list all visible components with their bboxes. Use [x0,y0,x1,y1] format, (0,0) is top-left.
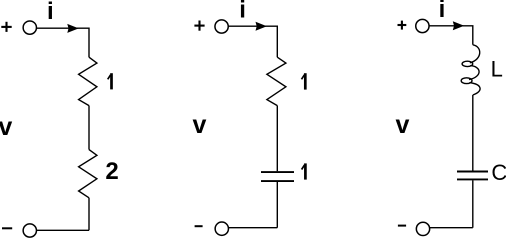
minus terminal label (left source) [2,227,12,229]
capacitor 1 top plate [261,171,294,173]
resistor 1 [79,57,97,105]
label i (middle) [239,0,246,24]
label i (left) [47,0,54,25]
minus terminal label (middle source) [195,225,203,227]
terminal node + (left) [23,21,36,34]
svg-text:C: C [491,160,506,185]
wire bottom horizontal (left) [37,229,89,231]
value label C (capacitor) [491,160,506,185]
wire capacitor to bottom (right) [472,180,474,227]
current arrow i (middle) [256,22,267,31]
capacitor C bottom plate [457,178,488,180]
wire capacitor to bottom (middle) [276,182,278,228]
wire top (left) [37,28,90,57]
resistor 1 (middle) [267,57,286,105]
svg-text:v: v [0,113,12,141]
svg-text:v: v [395,111,409,139]
label i (right) [439,0,446,23]
wire top (middle) [228,26,277,57]
inductor L coil [461,45,480,95]
plus terminal label (left source) [1,22,11,32]
value label L (inductor) [491,57,503,82]
plus terminal label (middle source) [194,21,204,31]
wire bottom vertical (left) [88,198,90,231]
label v (middle source) [192,111,206,139]
terminal node - (right) [416,222,429,235]
value label 1 (resistor R1) [108,73,112,89]
minus terminal label (right source) [398,225,406,227]
svg-text:v: v [192,111,206,139]
wire top (right) [429,26,473,45]
svg-text:i: i [47,0,54,25]
wire between resistors (left) [88,106,90,150]
current arrow i (left) [67,24,78,33]
wire inductor to capacitor (right) [472,95,474,171]
value label 1 (capacitor) [302,163,306,179]
wire bottom horizontal (middle) [229,227,278,229]
wire resistor to capacitor (middle) [276,106,278,172]
current arrow i (right) [453,21,464,30]
terminal node - (middle) [215,222,228,235]
terminal node - (left) [23,224,36,237]
plus terminal label (right source) [398,21,407,30]
resistor 2 [79,150,97,198]
svg-text:i: i [439,0,446,23]
wire bottom horizontal (right) [430,227,473,229]
label v (left source) [0,113,12,141]
svg-text:L: L [491,57,503,82]
value label 1 (middle resistor) [302,73,306,89]
svg-text:2: 2 [105,158,118,185]
value label 2 (resistor R2) [105,158,118,185]
capacitor C top plate [457,171,488,173]
capacitor 1 bottom plate [261,180,294,182]
label v (right source) [395,111,409,139]
terminal node + (middle) [215,20,228,33]
svg-text:i: i [239,0,246,24]
terminal node + (right) [416,19,429,32]
